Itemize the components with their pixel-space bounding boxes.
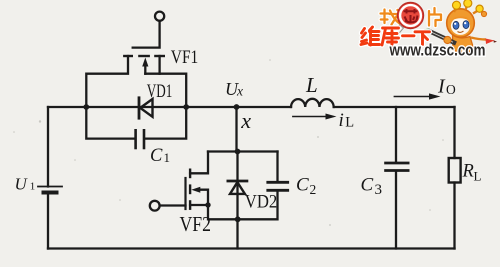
node C dot bottom [235, 216, 241, 222]
capacitor C2 bottom plate [268, 189, 288, 192]
transistor VF1 body arrowhead [142, 58, 148, 67]
svg-text:1: 1 [164, 150, 171, 165]
capacitor C3 bottom plate [386, 169, 409, 172]
node A dot [83, 104, 89, 110]
wire VF2 source to node C [190, 205, 238, 219]
svg-text:VF1: VF1 [171, 48, 199, 68]
svg-text:VD2: VD2 [245, 192, 277, 213]
svg-text:I: I [437, 76, 446, 98]
svg-text:1: 1 [30, 181, 36, 193]
watermark char pian [429, 8, 441, 26]
inductor L humps [291, 99, 334, 107]
watermark mascot face [451, 17, 470, 35]
watermark logo dzsc [361, 0, 497, 59]
node D dot mid [235, 149, 241, 155]
svg-text:R: R [462, 162, 474, 182]
watermark mascot pen [427, 29, 457, 46]
capacitor C3 top plate [386, 162, 409, 165]
svg-text:O: O [446, 82, 456, 97]
resistor RL box [449, 158, 461, 183]
svg-text:2: 2 [310, 182, 317, 197]
wire C3 riser top [395, 107, 397, 162]
transistor VF2 channel bar body [189, 186, 191, 193]
svg-text:VD1: VD1 [147, 82, 173, 102]
transistor VF1 channel bar body [139, 55, 148, 57]
current arrow IO shaft [394, 96, 430, 98]
watermark mascot red pencil [486, 39, 495, 45]
svg-text:www.dzsc.com: www.dzsc.com [389, 41, 486, 59]
wire bottom rail [48, 247, 455, 249]
transistor VF1 body arrow shaft [144, 64, 146, 74]
transistor VF2 body arrow shaft [198, 190, 208, 205]
transistor Q2 VF2 gate lead [160, 204, 186, 206]
wire C3 riser bottom [395, 172, 397, 249]
transistor VF1 channel bar drain [155, 55, 163, 57]
watermark char xin [404, 9, 418, 22]
battery U1 long plate [38, 186, 62, 188]
wire main top rail left of inductor [48, 106, 291, 108]
watermark mascot body [453, 35, 475, 53]
node VF2 source dot [205, 202, 210, 207]
node B dot [183, 104, 189, 110]
watermark mascot antennae [454, 6, 478, 14]
watermark mascot arm right [471, 38, 486, 40]
watermark mascot head [447, 9, 475, 37]
wire Ux node drop [235, 107, 237, 152]
node Ux dot [234, 104, 240, 110]
current arrow iL head [326, 114, 337, 120]
wire VF2 drain riser [190, 152, 208, 174]
wire RL riser bottom [453, 183, 455, 249]
capacitor C1 left plate [134, 130, 137, 148]
watermark text weiku red [361, 27, 430, 46]
svg-text:C: C [150, 146, 163, 166]
wire C2 riser bottom [238, 191, 278, 219]
watermark magnifier circle [398, 3, 424, 29]
battery U1 short plate [44, 191, 57, 195]
transistor Q1 VF1 gate lead [133, 21, 160, 48]
svg-text:3: 3 [375, 182, 383, 198]
wire mid horizontal [208, 150, 278, 152]
svg-text:i: i [339, 110, 344, 131]
capacitor C1 right plate [143, 130, 146, 148]
svg-text:C: C [296, 175, 309, 196]
watermark char zhao [381, 10, 400, 25]
wire VF1 source elbow to node A [86, 56, 128, 107]
svg-text:L: L [305, 73, 318, 97]
wire RL riser top [453, 107, 455, 158]
diode VD1 triangle [140, 99, 152, 117]
diode VD2 triangle [230, 182, 245, 194]
current arrow IO head [429, 93, 441, 99]
current arrow iL shaft [293, 116, 327, 118]
transistor VF1 channel bar source [124, 55, 132, 57]
terminal circle VF1 gate [155, 12, 164, 21]
svg-text:L: L [345, 115, 354, 131]
svg-text:U: U [15, 175, 29, 194]
diode VD1 cathode bar [138, 98, 141, 118]
wire C2 riser top [276, 152, 278, 182]
svg-text:x: x [240, 108, 251, 133]
svg-text:VF2: VF2 [180, 212, 212, 236]
capacitor C2 top plate [268, 181, 288, 184]
svg-text:x: x [236, 84, 243, 99]
wire C1 branch left [86, 107, 134, 139]
wire central vertical through VD2 [236, 152, 238, 249]
wire VF1 drain stub [158, 56, 160, 74]
svg-text:C: C [361, 175, 374, 196]
wire left rail lower [47, 193, 49, 249]
wire C1 branch right [145, 107, 186, 139]
terminal circle VF2 gate [150, 201, 160, 211]
transistor VF2 body arrowhead [191, 187, 200, 193]
transistor VF2 channel bar drain [189, 170, 191, 177]
wire main top rail right of inductor [334, 106, 455, 108]
wire VF1 drain elbow to node B [145, 74, 186, 107]
diode VD2 cathode bar [228, 180, 247, 183]
watermark magnifier handle [394, 25, 403, 35]
svg-text:L: L [474, 169, 482, 184]
wire left rail upper [47, 107, 49, 187]
transistor VF2 gate plate [184, 178, 186, 209]
transistor VF2 channel bar source [189, 201, 191, 208]
